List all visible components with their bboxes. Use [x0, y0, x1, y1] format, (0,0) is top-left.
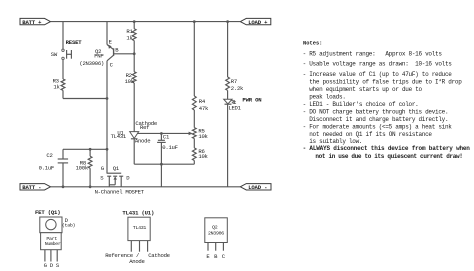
svg-text:R7: R7 — [231, 78, 237, 85]
svg-text:BATT -: BATT - — [22, 184, 41, 191]
svg-text:is suitably low.: is suitably low. — [309, 138, 362, 145]
svg-text:- Increase value of C1 (up to: - Increase value of C1 (up to 47uF) to r… — [303, 71, 453, 78]
svg-text:- ALWAYS disconnect this devic: - ALWAYS disconnect this device from bat… — [303, 145, 471, 152]
svg-text:R4: R4 — [199, 98, 206, 105]
svg-text:1k: 1k — [53, 83, 60, 90]
wire switch branch from top rail — [62, 22, 64, 50]
svg-text:LED1: LED1 — [228, 104, 241, 111]
node base junction — [133, 52, 136, 55]
wire bottom rail BATT- to LOAD- — [51, 186, 241, 188]
svg-text:- Usable voltage range as draw: - Usable voltage range as drawn: 10-16 v… — [303, 61, 453, 68]
svg-text:Ref: Ref — [140, 124, 149, 131]
svg-text:Anode: Anode — [129, 258, 144, 265]
svg-text:2N3906: 2N3906 — [208, 231, 224, 237]
node anode/ground junction — [160, 163, 163, 166]
wire R1 to base node — [133, 41, 135, 54]
resistor R3 — [61, 79, 65, 90]
wire switch to R3 — [62, 60, 64, 79]
node C2 bottom on rail — [62, 185, 65, 188]
svg-text:not in use due to its quiescen: not in use due to its quiescent current … — [315, 153, 462, 160]
net flag LOAD+ — [240, 18, 270, 25]
svg-text:(tab): (tab) — [62, 223, 76, 229]
wire base node to R2 — [133, 54, 135, 72]
wire top rail BATT+ to LOAD+ — [51, 21, 241, 23]
svg-text:Disconnect it and charge batte: Disconnect it and charge battery directl… — [309, 116, 448, 123]
svg-text:- For moderate amounts (<=5 am: - For moderate amounts (<=5 amps) a heat… — [303, 124, 453, 131]
net flag LOAD- — [240, 184, 271, 191]
svg-text:Notes:: Notes: — [303, 40, 322, 46]
svg-text:0.1uF: 0.1uF — [162, 144, 177, 151]
wire anode rail to R6 — [134, 163, 194, 165]
transistor Q2 PNP 2N3906 — [107, 45, 114, 61]
wire rail to R4 — [193, 22, 195, 96]
FET legs — [45, 250, 57, 262]
svg-text:10k: 10k — [198, 133, 208, 140]
svg-text:Q1: Q1 — [113, 165, 120, 172]
net flag BATT- — [20, 184, 51, 191]
wire gate node to C2/R8 — [63, 148, 107, 150]
svg-text:2.2k: 2.2k — [231, 85, 244, 92]
wire R3 to collector node — [62, 90, 64, 98]
svg-text:Cathode: Cathode — [148, 252, 170, 259]
transistor Q1 N-channel MOSFET — [107, 173, 124, 187]
svg-text:peak loads.: peak loads. — [309, 94, 345, 101]
svg-text:PNP: PNP — [94, 52, 104, 59]
node R1 top on rail — [133, 20, 136, 23]
svg-text:N-Channel MOSFET: N-Channel MOSFET — [95, 189, 145, 196]
wire R6 to anode rail — [193, 161, 195, 165]
svg-text:FET (Q1): FET (Q1) — [35, 209, 60, 216]
svg-text:TL431 (U1): TL431 (U1) — [122, 210, 154, 217]
resistor R5 (adjustable) — [192, 128, 196, 139]
wire R5 to R6 — [193, 139, 195, 148]
wire R2 to TL431 cathode — [133, 83, 135, 132]
svg-text:- R5 adjustment range: Appro: - R5 adjustment range: Approx 8-16 volts — [303, 51, 443, 58]
node R7 top on rail — [226, 20, 229, 23]
wire rail to R1 — [133, 22, 135, 29]
svg-text:LOAD +: LOAD + — [248, 19, 268, 26]
svg-text:when equipment starts up or du: when equipment starts up or due to — [309, 86, 422, 93]
svg-text:10k: 10k — [198, 153, 208, 160]
svg-text:the possibility of false trips: the possibility of false trips due to I*… — [309, 79, 462, 86]
svg-text:C1: C1 — [163, 133, 170, 140]
resistor R7 — [226, 77, 230, 90]
node R3/collector junction — [106, 97, 109, 100]
op-amp U1 TL431 shunt regulator — [130, 132, 139, 139]
svg-text:(2N3906): (2N3906) — [79, 60, 104, 67]
net flag BATT+ — [20, 18, 51, 25]
wire ground stub to bottom rail — [160, 164, 162, 187]
resistor R8 — [88, 156, 92, 168]
wire R4 to R5 — [193, 110, 195, 128]
svg-text:TL431: TL431 — [111, 133, 127, 140]
wire Ref to R5 wiper arrow — [137, 132, 190, 134]
node gate wire junction — [106, 148, 109, 151]
TL431 legs — [131, 241, 147, 252]
wire emitter of Q2 to top rail — [106, 22, 108, 45]
svg-text:Number: Number — [45, 241, 61, 247]
capacitor C2 0.1uF — [58, 149, 68, 187]
node R8 bottom on rail — [89, 185, 92, 188]
wire LED1 to bottom rail — [227, 104, 229, 187]
pinout Q2 2N3906 package — [205, 218, 228, 243]
wire R8 top stub — [89, 149, 91, 156]
svg-text:BATT +: BATT + — [22, 19, 42, 26]
node R4 top on rail — [193, 20, 196, 23]
svg-text:47k: 47k — [199, 105, 209, 112]
svg-text:Q2: Q2 — [212, 225, 218, 231]
LED LED1 — [224, 99, 237, 104]
wire R8 to bottom rail — [89, 168, 91, 187]
resistor R2 — [132, 72, 136, 83]
svg-text:RESET: RESET — [66, 39, 83, 46]
svg-text:LOAD -: LOAD - — [248, 184, 267, 191]
wire base of Q2 to R1/R2 node — [114, 53, 135, 55]
wire R7 to LED1 — [227, 90, 229, 99]
node R8 top — [89, 148, 92, 151]
switch SW (RESET pushbutton) — [62, 49, 72, 60]
svg-text:- LED1 - Builder's choice of c: - LED1 - Builder's choice of color. — [303, 101, 419, 108]
resistor R4 — [192, 96, 196, 110]
notes text block — [303, 51, 471, 160]
wire gate node to gate of Q1 — [106, 149, 108, 173]
svg-text:0.1uF: 0.1uF — [39, 165, 54, 172]
resistor R6 — [192, 148, 196, 161]
svg-text:PWR ON: PWR ON — [242, 96, 261, 103]
svg-text:Anode: Anode — [135, 138, 150, 145]
capacitor C1 0.1uF — [157, 134, 166, 165]
svg-text:SW: SW — [51, 51, 58, 58]
wire collector of Q2 down to gate node — [106, 61, 108, 150]
wire anode down — [133, 139, 135, 164]
svg-text:- DO NOT charge battery throug: - DO NOT charge battery through this dev… — [303, 109, 449, 116]
svg-text:10k: 10k — [125, 78, 135, 85]
svg-text:100k: 100k — [76, 164, 89, 171]
node C1 tap on Ref wire — [160, 132, 163, 135]
svg-text:TL431: TL431 — [133, 225, 147, 231]
Q2 legs — [208, 243, 223, 251]
svg-text:C2: C2 — [46, 152, 52, 159]
svg-text:not needed on Q1 if its ON res: not needed on Q1 if its ON resistance — [309, 131, 432, 138]
svg-text:1k: 1k — [126, 34, 133, 41]
wire rail to R7 — [227, 22, 229, 77]
svg-text:G D S: G D S — [44, 262, 60, 269]
resistor R1 — [132, 29, 136, 41]
